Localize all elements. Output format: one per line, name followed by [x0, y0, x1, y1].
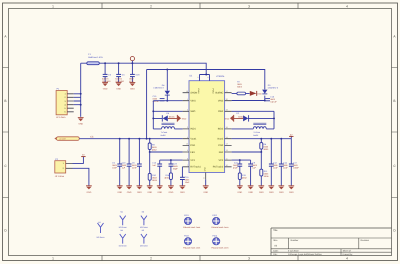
svg-text:10nF: 10nF [185, 181, 190, 184]
power port VIN [130, 57, 134, 64]
svg-text:GND: GND [147, 191, 152, 194]
svg-text:M2: M2 [121, 211, 124, 214]
ground below C6 [137, 186, 143, 194]
svg-text:68pF: 68pF [173, 167, 178, 170]
ground below R14 [168, 186, 174, 194]
junction C4 [118, 62, 120, 64]
svg-text:9: 9 [197, 76, 198, 79]
svg-text:Fiducial mark 1mm: Fiducial mark 1mm [212, 246, 229, 249]
svg-text:7: 7 [187, 164, 188, 167]
svg-text:IND2: IND2 [218, 128, 224, 131]
mounting hole M1 [97, 221, 105, 239]
svg-text:GND: GND [103, 87, 108, 90]
svg-text:GND: GND [269, 191, 274, 194]
svg-text:SW1: SW1 [190, 110, 196, 113]
junction D2 row [273, 117, 275, 119]
ground below C20 [126, 186, 132, 194]
svg-text:2: 2 [150, 257, 152, 261]
svg-text:Sheet of: Sheet of [343, 250, 352, 253]
svg-text:10nF: 10nF [112, 167, 117, 170]
svg-text:Title: Title [273, 229, 278, 232]
svg-text:JP 1.0mm: JP 1.0mm [55, 175, 65, 178]
ground below R10 [147, 186, 153, 194]
ground below C9 [248, 186, 254, 194]
capacitor C15 [180, 167, 190, 186]
svg-text:D:\Design (Logic brd)\Power.Sc: D:\Design (Logic brd)\Power.SchDoc [288, 253, 322, 256]
svg-text:LT3692A: LT3692A [216, 75, 225, 78]
diode D6 B340A [162, 112, 175, 122]
svg-text:0.47uF: 0.47uF [270, 100, 277, 103]
svg-text:Revision: Revision [361, 239, 370, 242]
junction CC rail [138, 138, 140, 140]
ground below R11 [258, 186, 264, 194]
diode D3 CMDSH2-3 [262, 84, 279, 101]
svg-text:22uF: 22uF [283, 167, 288, 170]
wire input vertical [80, 63, 82, 117]
connector P1 [56, 88, 67, 119]
svg-text:GND: GND [117, 191, 122, 194]
capacitor C9 [248, 160, 258, 186]
svg-text:GND: GND [157, 191, 162, 194]
fiducial FID3 [183, 235, 200, 250]
svg-text:CMDSH2-3: CMDSH2-3 [153, 87, 164, 90]
svg-text:M5: M5 [142, 229, 145, 232]
U1 left pin stubs [183, 93, 189, 167]
svg-text:GND: GND [203, 191, 208, 194]
svg-text:Fiducial mark 1mm: Fiducial mark 1mm [212, 226, 229, 229]
ground port left GND arrow [177, 115, 187, 122]
svg-text:M3 5mm: M3 5mm [119, 226, 127, 229]
op-amp U1 LT3692A regulator body [189, 81, 225, 173]
svg-text:B340A: B340A [238, 116, 244, 119]
capacitor C6 [132, 139, 142, 186]
svg-text:Date:: Date: [273, 250, 279, 253]
ferrite bead L3 [54, 137, 79, 141]
svg-text:20: 20 [226, 98, 228, 101]
U1 right pin stubs [225, 93, 232, 167]
svg-text:2: 2 [187, 109, 188, 112]
ground below P1 [78, 118, 84, 126]
ground below C5 [117, 186, 123, 194]
junction top loop [205, 74, 207, 76]
svg-text:22uF: 22uF [273, 167, 278, 170]
resistor R9 [148, 139, 157, 152]
svg-text:2: 2 [150, 4, 152, 8]
svg-text:B: B [4, 99, 6, 103]
capacitor C14 [279, 139, 289, 186]
svg-text:M3: M3 [142, 211, 145, 214]
svg-text:PVIN1: PVIN1 [197, 89, 200, 94]
capacitor C12 [269, 139, 279, 186]
svg-text:VC1: VC1 [190, 159, 195, 162]
junction SW1 [152, 110, 154, 112]
power port 5V output [289, 133, 293, 138]
svg-text:GND: GND [259, 191, 264, 194]
P1 pin stubs [67, 94, 74, 112]
resistor R14 [165, 173, 173, 180]
wire P2 pin2 to ground [73, 168, 89, 186]
svg-text:GND: GND [137, 191, 142, 194]
U1 pin names [190, 89, 223, 172]
junction C3 [104, 62, 106, 64]
capacitor C3 [102, 63, 112, 83]
ground below C14 [278, 186, 284, 194]
svg-text:GND: GND [87, 191, 92, 194]
svg-text:M3 5mm: M3 5mm [97, 236, 105, 239]
svg-text:GND: GND [248, 191, 253, 194]
wire VIN2 row [232, 100, 265, 102]
junction P1 pin1 [80, 93, 82, 95]
capacitor C4 [115, 63, 125, 83]
wire P2 pin1 to 5V port [73, 157, 84, 164]
junction P1 pin4 [80, 104, 82, 106]
svg-text:GND: GND [225, 117, 230, 120]
svg-text:3: 3 [187, 126, 188, 129]
wire output rail right [232, 138, 292, 140]
mounting hole M2 [119, 211, 127, 229]
fiducial FID2 [212, 214, 229, 229]
wire auxiliary rail [147, 70, 265, 139]
wire VIN1 row [153, 100, 182, 102]
svg-text:11: 11 [226, 157, 228, 160]
ground below C15 [180, 186, 186, 194]
svg-text:GND: GND [279, 191, 284, 194]
svg-text:GND: GND [257, 92, 262, 95]
svg-text:IND1: IND1 [190, 128, 196, 131]
wire VC2 row [232, 159, 251, 161]
power port 5V at P2 [81, 154, 85, 157]
svg-text:VIN1: VIN1 [190, 100, 196, 103]
wire VC1 row [160, 159, 183, 161]
svg-text:1: 1 [52, 4, 54, 8]
inductor L2 6u8H [232, 123, 274, 137]
svg-text:M3 5mm: M3 5mm [119, 244, 127, 247]
capacitor C22 [233, 160, 242, 173]
svg-text:4: 4 [187, 136, 188, 139]
svg-text:18: 18 [226, 126, 228, 129]
svg-text:GND: GND [127, 191, 132, 194]
svg-text:GND: GND [130, 87, 135, 90]
diode D4 CMDSH2-3 [153, 70, 170, 101]
wire P1 pins to input rail [74, 94, 81, 105]
svg-text:PG1: PG1 [190, 144, 195, 147]
junction VIN1 row [166, 100, 168, 102]
svg-text:100nF: 100nF [293, 167, 299, 170]
svg-text:Fiducial mark 1mm: Fiducial mark 1mm [183, 246, 200, 249]
ground below C13 [157, 186, 163, 194]
svg-text:1: 1 [187, 98, 188, 101]
svg-text:VIN2: VIN2 [218, 100, 224, 103]
svg-text:7x7mm: 7x7mm [253, 131, 260, 134]
svg-text:Vout2: Vout2 [217, 138, 224, 141]
svg-text:CMDSH2-3: CMDSH2-3 [268, 87, 279, 90]
ground below C12 [268, 186, 274, 194]
mounting hole M4 [119, 229, 127, 247]
svg-text:4-Jul-2010: 4-Jul-2010 [288, 250, 299, 253]
svg-text:M3 5mm: M3 5mm [140, 226, 148, 229]
svg-text:19: 19 [226, 109, 228, 112]
svg-text:B: B [393, 99, 395, 103]
svg-text:L3 600R: L3 600R [59, 138, 66, 141]
svg-text:22nF: 22nF [132, 167, 137, 170]
resistor R7 [232, 80, 250, 94]
svg-text:6u8H: 6u8H [161, 134, 166, 137]
svg-text:Number: Number [291, 239, 299, 242]
connector P2 [55, 158, 66, 178]
svg-text:MidiFuse 1.5TA: MidiFuse 1.5TA [88, 56, 103, 59]
inductor L1 6u8H [153, 123, 182, 137]
wire SW1 node [153, 101, 182, 129]
title block [271, 228, 392, 256]
svg-text:GND: GND [182, 117, 187, 120]
P2 pin stubs [66, 163, 73, 168]
svg-text:5: 5 [187, 149, 188, 152]
wire FB1 row [150, 150, 183, 153]
fuse F1 [87, 53, 104, 64]
capacitor C19 [129, 63, 140, 83]
junction C19 [131, 62, 133, 64]
svg-text:M1: M1 [98, 221, 101, 224]
capacitor C17 [289, 139, 300, 186]
resistor R11 [260, 152, 270, 178]
capacitor C20 [122, 139, 132, 186]
ground below C19 [130, 83, 136, 91]
svg-text:4: 4 [346, 4, 348, 8]
junction output rail [270, 138, 272, 140]
svg-text:15: 15 [186, 143, 188, 146]
svg-text:GND: GND [116, 87, 121, 90]
svg-text:GND: GND [289, 191, 294, 194]
capacitor C23 [169, 160, 179, 173]
svg-text:SW2: SW2 [218, 110, 224, 113]
wire ground port to D2 [234, 117, 243, 119]
svg-text:12: 12 [226, 149, 228, 152]
svg-text:10: 10 [226, 164, 228, 167]
svg-text:Vout1: Vout1 [190, 138, 197, 141]
svg-text:VC2: VC2 [219, 159, 224, 162]
svg-text:File:: File: [273, 253, 278, 256]
svg-text:RVTrack1: RVTrack1 [190, 166, 201, 169]
svg-text:6: 6 [187, 157, 188, 160]
svg-text:GND: GND [204, 167, 207, 172]
svg-text:BuffNC: BuffNC [216, 92, 224, 95]
junction CC rail [119, 138, 121, 140]
mounting hole M5 [140, 229, 148, 247]
ground below U1 [203, 186, 209, 194]
diode D2 B340A [236, 112, 248, 121]
svg-text:13: 13 [226, 143, 228, 146]
junction D4 branch [166, 69, 168, 71]
svg-text:3: 3 [248, 4, 250, 8]
junction VC2 [239, 159, 241, 161]
svg-text:RVTrack2: RVTrack2 [213, 166, 224, 169]
junction output rail [280, 138, 282, 140]
wire SW2 node [232, 111, 274, 129]
svg-text:FB2: FB2 [219, 151, 224, 154]
U1 bottom ground pin [205, 173, 207, 180]
svg-text:SHDN: SHDN [190, 92, 197, 95]
svg-text:14: 14 [226, 136, 228, 139]
svg-text:GND: GND [237, 191, 242, 194]
svg-text:M3 5mm: M3 5mm [140, 244, 148, 247]
ground below R13 [237, 186, 243, 194]
svg-text:Drawn By:: Drawn By: [343, 253, 353, 256]
wire CC output rail [79, 138, 182, 140]
svg-text:GND: GND [180, 191, 185, 194]
diode D8 indicator [250, 91, 262, 96]
resistor R13 [238, 173, 247, 180]
capacitor C5 [112, 139, 122, 186]
junction CC rail [146, 138, 148, 140]
resistor R10 [148, 152, 158, 182]
capacitor C10 [153, 95, 165, 103]
ground below P2 [86, 186, 92, 194]
svg-text:1: 1 [52, 257, 54, 261]
svg-text:17: 17 [226, 90, 228, 93]
svg-text:3: 3 [248, 257, 250, 261]
svg-text:4: 4 [346, 257, 348, 261]
junction D6 row [152, 117, 154, 119]
resistor R4 [260, 139, 269, 151]
ground below C4 [116, 83, 122, 91]
svg-text:GND: GND [169, 191, 174, 194]
junction CC rail [128, 138, 130, 140]
svg-text:GND: GND [78, 123, 83, 126]
wire U1 top supply loop [200, 75, 210, 81]
svg-text:11: 11 [203, 177, 205, 180]
svg-text:FB1: FB1 [190, 151, 195, 154]
junction output rail [260, 138, 262, 140]
svg-text:8: 8 [207, 76, 208, 79]
junction VC1 [170, 159, 172, 161]
svg-text:CC: CC [90, 136, 94, 139]
capacitor C13 [152, 160, 162, 186]
junction CC rail [149, 138, 151, 140]
junction VIN2 [264, 100, 266, 102]
svg-text:Fiducial mark 1mm: Fiducial mark 1mm [183, 226, 200, 229]
junction FB2 [260, 151, 262, 153]
junction FB1 [149, 151, 151, 153]
svg-text:M4: M4 [121, 229, 124, 232]
svg-text:47pF: 47pF [233, 167, 238, 170]
svg-text:PVIN2: PVIN2 [211, 89, 214, 94]
fiducial FID4 [212, 235, 229, 250]
svg-text:PG2: PG2 [218, 144, 223, 147]
ground below C3 [102, 83, 108, 91]
mounting hole M3 [140, 211, 148, 229]
svg-text:16: 16 [186, 90, 188, 93]
capacitor C16 [265, 95, 277, 103]
ground port right GND arrow [225, 115, 234, 122]
svg-text:JP 1.0mm: JP 1.0mm [56, 116, 66, 119]
svg-text:7x7mm: 7x7mm [161, 131, 168, 134]
svg-text:6u8H: 6u8H [253, 134, 258, 137]
ground below C17 [288, 186, 294, 194]
fiducial FID1 [183, 214, 200, 229]
U1 pin numbers [186, 76, 228, 180]
wire input rail [81, 63, 207, 74]
wire D6 to ground port [168, 117, 177, 119]
wire FB2 row [232, 149, 262, 152]
